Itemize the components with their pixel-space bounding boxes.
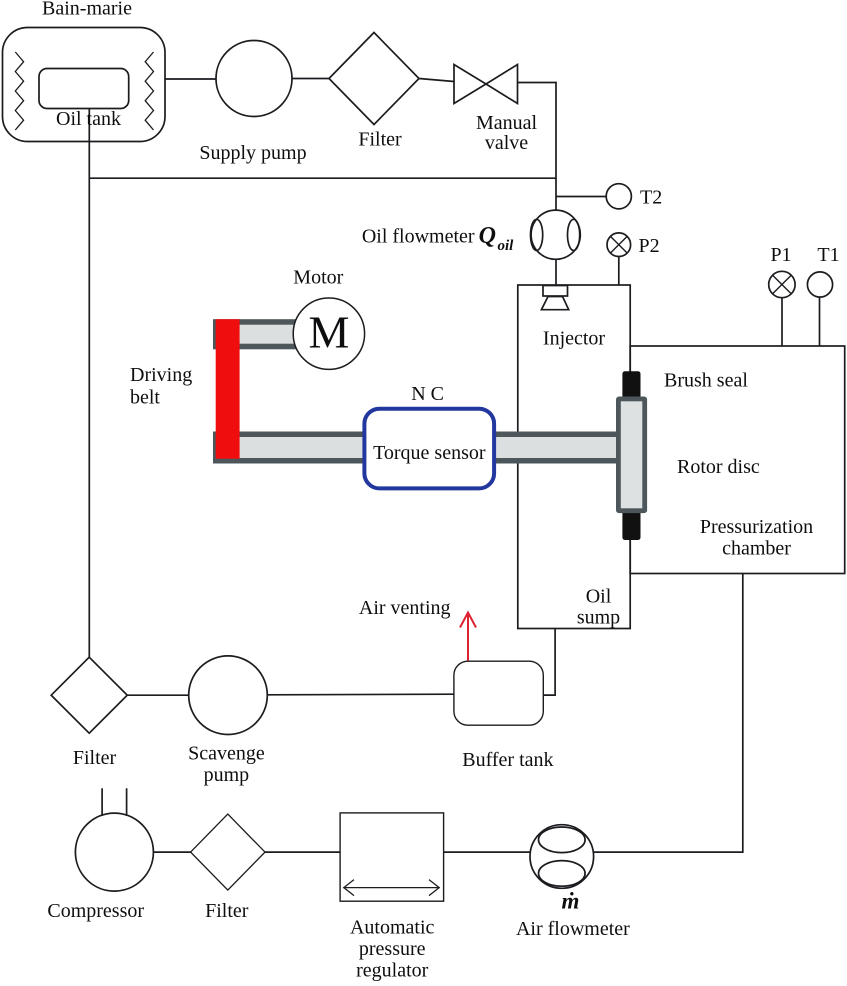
air venting arrow [460, 613, 476, 661]
svg-text:ṁ: ṁ [562, 889, 580, 914]
wire pump to filter [292, 78, 329, 80]
driving belt [216, 319, 240, 459]
svg-text:oil: oil [498, 238, 515, 254]
filter F2 [51, 657, 127, 733]
svg-text:Q: Q [479, 223, 496, 249]
filter F3 [191, 814, 265, 890]
wire P1 [781, 298, 783, 347]
heater zigzag left [15, 52, 23, 130]
svg-text:Air flowmeter: Air flowmeter [516, 918, 630, 940]
svg-text:P1: P1 [770, 244, 791, 266]
svg-text:chamber: chamber [722, 538, 791, 560]
wire valve to corner down [518, 83, 557, 211]
wire sump to buffer tank [543, 629, 555, 696]
wire flowmeter right up to chamber [593, 574, 742, 853]
filter F1 [329, 33, 419, 125]
svg-text:Compressor: Compressor [47, 900, 144, 922]
svg-text:M: M [308, 307, 349, 358]
injector housing / oil sump rectangle [518, 285, 630, 629]
svg-text:Scavenge: Scavenge [188, 743, 265, 765]
svg-text:Automatic: Automatic [350, 917, 435, 939]
pressurization chamber rectangle [630, 346, 845, 574]
heater zigzag right [145, 52, 153, 130]
wire branch from tank line to flowmeter line [89, 177, 556, 179]
svg-text:Filter: Filter [73, 747, 117, 769]
bain-marie outer tank [3, 28, 166, 142]
svg-text:Buffer tank: Buffer tank [462, 749, 553, 771]
svg-text:sump: sump [577, 607, 620, 629]
wire buffer tank to scavenge pump [267, 693, 454, 696]
wire regulator to air flowmeter [444, 851, 531, 853]
svg-text:pump: pump [204, 764, 250, 786]
svg-text:T1: T1 [817, 244, 839, 266]
svg-text:valve: valve [485, 132, 528, 154]
buffer tank [454, 661, 543, 725]
svg-text:T2: T2 [640, 187, 662, 209]
svg-text:Motor: Motor [293, 267, 343, 289]
svg-text:Rotor disc: Rotor disc [677, 456, 760, 478]
wire filter to regulator [265, 851, 340, 853]
sensor P1 [769, 271, 795, 297]
svg-text:belt: belt [130, 387, 160, 409]
wire P2 to injector housing [618, 257, 620, 286]
wire stub to T2 [556, 196, 606, 198]
svg-text:Torque sensor: Torque sensor [373, 442, 486, 464]
svg-text:P2: P2 [639, 235, 660, 257]
svg-text:Filter: Filter [205, 900, 249, 922]
svg-text:Air venting: Air venting [359, 597, 451, 619]
svg-text:Driving: Driving [130, 364, 192, 386]
manual valve [454, 65, 486, 104]
compressor intake lines [101, 788, 103, 816]
sensor P2 [607, 233, 631, 257]
supply pump P [216, 41, 292, 117]
scavenge pump [189, 656, 268, 735]
svg-text:N C: N C [411, 383, 444, 405]
svg-text:Oil: Oil [586, 586, 612, 608]
svg-text:Filter: Filter [358, 129, 402, 151]
svg-text:Brush seal: Brush seal [664, 370, 748, 392]
torque sensor box [364, 409, 494, 489]
svg-text:pressure: pressure [359, 938, 426, 960]
oil flowmeter symbol [531, 210, 580, 259]
svg-text:regulator: regulator [356, 960, 429, 982]
motor M [293, 298, 364, 369]
sensor T2 [606, 184, 631, 209]
svg-text:Oil tank: Oil tank [56, 108, 121, 130]
automatic pressure regulator [340, 813, 444, 901]
svg-text:Pressurization: Pressurization [700, 516, 813, 538]
svg-text:Manual: Manual [476, 112, 538, 134]
air flowmeter symbol [530, 825, 594, 889]
compressor [75, 813, 153, 891]
wire flowmeter to injector housing [555, 259, 557, 285]
wire pump to filter F2 [127, 694, 189, 696]
motor upper shaft [213, 319, 296, 349]
svg-text:Bain-marie: Bain-marie [42, 0, 132, 20]
rotor disc [616, 371, 647, 540]
wire tank down to scavenge filter [88, 109, 90, 658]
wire compressor to filter F3 [153, 851, 190, 853]
wire tank to supply pump [165, 78, 216, 80]
main shaft [213, 432, 616, 464]
wire T1 [819, 297, 821, 346]
svg-text:Injector: Injector [543, 328, 606, 350]
oil tank inner rect [39, 69, 129, 109]
svg-text:Oil flowmeter: Oil flowmeter [362, 226, 475, 248]
svg-text:Supply pump: Supply pump [199, 142, 306, 164]
wire filter to manual valve [419, 79, 454, 82]
sensor T1 [807, 272, 832, 297]
injector nozzle [543, 286, 568, 297]
